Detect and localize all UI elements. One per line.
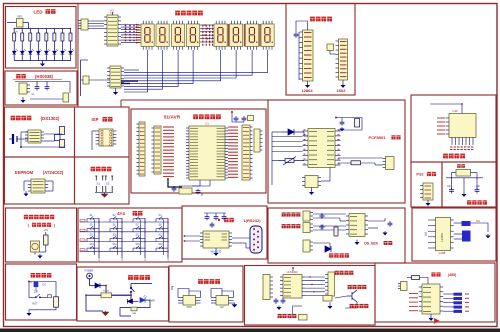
keypad row wire 3	[80, 241, 169, 243]
diode D11	[95, 283, 100, 288]
MAX232 IC U7	[203, 231, 229, 248]
U15 right pins	[196, 298, 201, 304]
bottom wire	[29, 307, 56, 311]
svg-text:+5V: +5V	[44, 228, 49, 232]
key switch S9	[87, 236, 99, 242]
wires right	[454, 222, 462, 224]
diode D10	[325, 246, 331, 252]
U9 left pins	[432, 220, 435, 248]
section box: crystal oscillator	[442, 162, 496, 207]
pullup resistor R15	[412, 276, 420, 280]
top rail wire	[15, 81, 70, 83]
LED bottom rail wire	[14, 60, 71, 62]
contrast pot RP2	[327, 44, 334, 51]
U1 right pin names	[217, 128, 225, 176]
digit DS2 bottom pins	[158, 47, 167, 50]
crystal Y3	[456, 170, 471, 177]
cap stub	[35, 281, 37, 283]
J6 pin rows	[155, 128, 160, 172]
keypad column wire 1b	[94, 220, 96, 256]
latch IC U3 74HC573	[110, 66, 121, 88]
svg-text:22p: 22p	[476, 185, 481, 188]
digit DS5 bottom pins	[216, 47, 225, 50]
svg-text:1(RS232): 1(RS232)	[243, 218, 261, 223]
U7 right pins	[229, 233, 232, 246]
U13 right pins	[440, 287, 443, 311]
wire jack down	[90, 279, 96, 286]
cap top rail	[204, 212, 226, 214]
wire 12864 top	[296, 21, 308, 32]
J3 left pins	[96, 131, 99, 144]
label '舵机输出'	[350, 304, 369, 308]
fan wires to U3	[124, 69, 139, 71]
wires J11/J12 to U12	[313, 213, 346, 215]
keypad column wire 3b	[140, 220, 142, 256]
thick segment bus wires	[121, 80, 138, 82]
ground under 12864	[307, 81, 309, 84]
title '红外(HS0038)'	[16, 74, 26, 78]
section box: 51/AVR MCU system	[131, 109, 266, 193]
U8 right pins	[335, 131, 341, 165]
MCU IC U1 STC89C52	[189, 126, 225, 180]
key switch S10	[110, 236, 122, 242]
LED D7	[61, 49, 67, 56]
bottom pin label row 2	[450, 149, 452, 151]
section box: reset circuit	[6, 264, 77, 320]
label '步进电机'	[335, 271, 354, 275]
connector J16	[263, 275, 270, 300]
red marker	[218, 219, 220, 221]
title '步进电机'	[443, 154, 465, 159]
U16 right pins	[229, 298, 234, 304]
cap C15	[319, 225, 325, 230]
key switch S6	[110, 226, 122, 232]
wire to ground	[42, 61, 44, 63]
section box: LED display	[6, 7, 77, 69]
wire U2 top	[112, 12, 114, 15]
left corner tick	[172, 287, 174, 291]
svg-text:22p: 22p	[447, 185, 452, 188]
red dot	[335, 117, 337, 119]
key switch S2	[110, 216, 122, 222]
svg-text:PS2: PS2	[416, 173, 423, 177]
wire to fuse	[100, 286, 106, 293]
wire to RP1	[7, 22, 17, 24]
grounds	[277, 306, 281, 310]
svg-text:EEPROM: EEPROM	[15, 170, 34, 175]
LED column 6: resistor R6	[53, 29, 55, 34]
power jack J18	[87, 273, 93, 279]
row label net 1	[80, 219, 85, 221]
section box: L298 motor driver	[412, 208, 496, 261]
LED D2	[20, 49, 26, 56]
wire	[48, 180, 53, 182]
title 'LED显示' blocks	[46, 9, 56, 14]
buzzer BZ1	[299, 315, 308, 321]
wires J2 to U2	[88, 20, 104, 22]
section box: PS2 port	[411, 162, 442, 207]
digit DS7 bottom pins	[248, 47, 257, 50]
section box: PCF8591 ADC circuit	[268, 100, 405, 203]
svg-text:U9: U9	[424, 232, 428, 236]
left bus junction dots	[125, 25, 127, 27]
LED column 2: resistor R2	[21, 29, 23, 34]
U10 bottom pins	[452, 138, 473, 146]
svg-text:S1: S1	[97, 182, 101, 186]
wire	[133, 300, 139, 302]
wire	[127, 295, 131, 301]
header J7	[242, 125, 250, 180]
digit DS3 top pins	[174, 21, 183, 24]
wires	[321, 180, 330, 182]
resistor R11	[44, 235, 49, 245]
seven-segment digit DS3	[172, 24, 185, 47]
U16 top hook wire	[211, 289, 222, 298]
wire	[145, 299, 150, 301]
DS1302 IC U5	[28, 130, 41, 143]
title '自动下载电路' line1	[24, 215, 54, 219]
wire bus top	[81, 59, 89, 61]
section box: independent push buttons	[75, 157, 130, 204]
power LED D13	[140, 295, 147, 303]
LED column 8: resistor R8	[69, 29, 71, 34]
push button K1	[95, 176, 103, 193]
U7 left pin rows	[205, 234, 211, 240]
ground	[340, 127, 344, 131]
section box: sensor interface and DS18B20	[268, 208, 405, 263]
title underline	[13, 79, 62, 81]
thermistor/pot RT1	[278, 157, 304, 166]
top center wire	[292, 268, 294, 271]
svg-text:VCC: VCC	[110, 10, 115, 12]
bus wires from U2 to digits	[121, 24, 139, 26]
key switch S12	[156, 236, 168, 242]
LED D5	[45, 49, 51, 56]
key switch S3	[133, 216, 145, 222]
left stubs	[184, 235, 201, 237]
left red label rows	[409, 294, 418, 311]
cap C16	[388, 221, 393, 227]
section box: stepper motor driver	[411, 95, 496, 162]
digit select fan-out wires	[124, 50, 148, 92]
electrolytic cap C12	[63, 93, 69, 102]
cap C13	[340, 120, 345, 126]
title '晶振电路'	[467, 200, 487, 204]
right wire	[471, 173, 478, 189]
svg-text:L298: L298	[439, 251, 446, 255]
svg-text:4×4: 4×4	[117, 211, 125, 216]
ground right	[383, 231, 387, 235]
wire fuse right thick	[112, 294, 132, 296]
cap C-lcd	[294, 32, 299, 38]
title '红外接收'	[329, 253, 349, 257]
title '时钟芯片(DS1302)'	[11, 116, 32, 121]
IR receiver U4	[19, 83, 27, 94]
ground	[311, 188, 313, 192]
LED D6	[53, 49, 59, 56]
seven-segment digit DS8	[261, 24, 274, 47]
U1 right pins	[225, 128, 228, 178]
loop wire	[120, 300, 150, 316]
U13 left pins	[419, 287, 422, 311]
header J8	[254, 129, 260, 152]
wires IC to J10	[338, 157, 383, 159]
svg-text:L298N: L298N	[440, 233, 444, 242]
ground	[27, 312, 31, 316]
U8 right pin rows	[327, 132, 334, 165]
U14 right pins	[302, 277, 305, 296]
LED column 4: resistor R4	[37, 29, 39, 34]
svg-text:U10: U10	[452, 109, 458, 113]
wire	[232, 112, 236, 122]
small part J15	[401, 282, 408, 291]
wire	[36, 82, 38, 85]
U12 left pins	[346, 216, 349, 234]
left stub wires	[428, 219, 432, 221]
reset key SW1	[32, 294, 44, 298]
section box: serial port 1 RS232	[182, 206, 267, 259]
key switch S15	[133, 246, 145, 252]
left bus wire	[80, 60, 82, 96]
J7 pin rows	[243, 128, 249, 178]
svg-text:RP1: RP1	[17, 15, 23, 19]
svg-text:10K: 10K	[34, 291, 39, 294]
digit DS3 bottom pins	[174, 47, 183, 50]
bottom component	[131, 307, 137, 311]
key switch S11	[133, 236, 145, 242]
cap C11	[45, 85, 50, 91]
cap C14	[319, 214, 325, 219]
sub IC U11 LM358	[305, 176, 318, 188]
section box: motor outputs	[245, 266, 376, 326]
U16 right hook	[222, 291, 234, 298]
photodiode D9	[282, 129, 304, 135]
connector J11	[303, 211, 310, 221]
section box: 4x4 matrix keypad	[78, 208, 182, 262]
right circuit	[471, 223, 489, 232]
wires bottom connector	[313, 242, 330, 244]
component R13	[351, 161, 361, 165]
wire	[44, 296, 48, 298]
U7 left pins	[200, 233, 203, 246]
svg-text:(AT24C02): (AT24C02)	[43, 170, 64, 175]
title '液晶显示' blocks	[310, 17, 332, 22]
resistor R12	[355, 119, 360, 128]
wire to resistor	[55, 282, 58, 297]
J3 pin squares	[101, 130, 103, 132]
section box: IR receiver HS0038	[5, 71, 77, 105]
seven-seg section bottom border	[121, 99, 405, 101]
seven-segment digit DS4	[187, 24, 200, 47]
L298 IC U9	[436, 218, 451, 251]
transistor Q2	[347, 290, 357, 302]
svg-text:7805: 7805	[186, 306, 192, 309]
LED D4	[37, 49, 43, 56]
center ground wire	[463, 178, 465, 193]
section box: power input	[77, 267, 169, 321]
wires right of U12	[368, 220, 385, 222]
thick bus segment	[168, 178, 182, 187]
ground under 1602	[342, 80, 344, 84]
left wire	[452, 173, 457, 189]
small part	[48, 295, 52, 298]
LCD connector J-1602	[339, 39, 348, 80]
small part	[248, 116, 254, 121]
U14 left pins	[280, 277, 283, 296]
wire	[34, 252, 36, 255]
digit DS6 top pins	[232, 21, 241, 24]
key switch S7	[133, 226, 145, 232]
VCC rail wire	[14, 28, 71, 30]
svg-text:S12: S12	[159, 233, 164, 236]
ground	[427, 200, 429, 202]
pull-up part RP3	[83, 76, 89, 84]
seven-segment digit DS7	[246, 24, 259, 47]
svg-text:(485): (485)	[448, 273, 457, 277]
keypad column wire 2b	[117, 220, 119, 256]
bottom wire	[30, 98, 63, 100]
U2 pin text rows	[108, 18, 117, 45]
485 IC U13	[422, 284, 440, 314]
cap C20	[281, 298, 286, 304]
bottom window edge bar	[0, 329, 500, 332]
red arrow cursor	[434, 318, 440, 325]
digit DS7 top pins	[248, 21, 257, 24]
12864 pin label rows	[304, 33, 312, 78]
LED D8	[69, 49, 75, 56]
title '串口2(485)'	[431, 272, 440, 276]
resistor pack RP1	[17, 19, 24, 28]
title '电源转换' blocks	[198, 279, 220, 284]
cap C18	[475, 188, 480, 194]
wire stub below box	[201, 193, 203, 196]
border stub	[120, 100, 122, 107]
svg-text:(DS1302): (DS1302)	[41, 116, 60, 121]
wire	[292, 306, 294, 315]
digit DS4 bottom pins	[189, 47, 198, 50]
ground	[102, 193, 108, 198]
digit DS1 top pins	[143, 21, 152, 24]
svg-text:M1: M1	[476, 219, 480, 223]
svg-text:POWER: POWER	[85, 271, 94, 273]
LED column 1: resistor R1	[13, 29, 15, 34]
svg-text:ULN2003: ULN2003	[287, 270, 299, 274]
title '串口1(RS232)'	[224, 218, 234, 222]
cap C19	[274, 298, 279, 304]
wire 12864 left bus	[298, 32, 300, 80]
connector J17 stepper	[328, 272, 335, 296]
wire from RP3	[89, 79, 110, 81]
bottom wire	[20, 132, 22, 147]
U1 left pins	[186, 128, 189, 178]
connector J12	[303, 223, 310, 233]
ground	[41, 62, 45, 66]
top wire	[430, 104, 462, 114]
wire right drop	[21, 146, 65, 148]
svg-text:S13: S13	[90, 243, 95, 246]
wire fuse left	[86, 295, 103, 311]
J14 pin rows	[425, 186, 432, 198]
cap C2	[172, 186, 177, 192]
top right sub-circuit	[336, 117, 362, 119]
svg-text:DS_B20: DS_B20	[364, 242, 378, 246]
wire	[45, 245, 47, 252]
keypad column wire 1	[98, 218, 100, 259]
fuse F1	[101, 293, 112, 298]
top rail wire	[29, 281, 56, 283]
wires top	[407, 277, 412, 279]
left loop wire	[29, 282, 32, 298]
U8 red pin numbers	[304, 129, 306, 131]
maroon separators in right digit group	[227, 24, 229, 47]
svg-text:S11: S11	[136, 233, 141, 236]
svg-text:CAP: CAP	[132, 312, 137, 315]
U9 right pins	[451, 220, 454, 248]
seven-seg section left border	[77, 4, 79, 108]
diode D12 reversed	[128, 299, 133, 304]
ground	[356, 240, 358, 242]
net label solid blue rect 1	[462, 221, 471, 226]
charge caps C4-C7	[205, 215, 210, 221]
transistor Q1	[31, 241, 40, 252]
U1 left pin names	[190, 128, 198, 176]
keypad column wire 3	[144, 218, 146, 259]
wire	[335, 296, 347, 298]
U12 right pins	[365, 216, 368, 234]
key switch S5	[87, 226, 99, 232]
connector J2	[81, 19, 88, 30]
ground	[215, 248, 217, 252]
ULN2003 IC U14	[283, 275, 302, 299]
crystal Y1	[179, 188, 192, 194]
maroon ground	[103, 311, 109, 315]
bottom pin labels	[450, 146, 452, 148]
section box: auto download circuit	[6, 208, 77, 262]
U8 left pins	[303, 131, 309, 165]
section box: LCD display	[286, 4, 355, 96]
LED column 7: resistor R7	[61, 29, 63, 34]
wire	[81, 79, 84, 81]
bus junction dot column	[136, 24, 138, 26]
resistor R14	[334, 227, 338, 236]
svg-text:S10: S10	[113, 233, 118, 236]
label '蜂鸣器驱动'	[278, 314, 297, 318]
U15 left pins	[178, 298, 183, 304]
resistor R10	[60, 140, 65, 148]
ground	[38, 254, 42, 258]
J3 right pins	[113, 131, 116, 144]
svg-text:S15: S15	[136, 243, 141, 246]
reset cap circuit top right	[234, 116, 239, 122]
keypad column wire 2	[121, 218, 123, 259]
title '数码管显示' blocks	[175, 11, 203, 16]
IC U12 DS18B20 interface	[349, 214, 365, 237]
relay K1	[323, 296, 332, 302]
small red label	[457, 164, 465, 168]
U13 pin rows	[423, 288, 431, 312]
electrolytic cap C25	[34, 282, 39, 287]
ground	[25, 191, 27, 193]
regulator U16 1117	[216, 296, 229, 306]
wires U14 to J17	[305, 276, 325, 278]
section box: clock chip DS1302	[5, 107, 75, 157]
U8 left pin rows	[309, 132, 317, 165]
red dot	[28, 281, 30, 283]
driver IC U10 ULN2003	[449, 114, 476, 138]
seven-segment digit DS6	[230, 24, 243, 47]
digit DS6 bottom pins	[232, 47, 241, 50]
wires DS1302 right	[44, 133, 62, 135]
